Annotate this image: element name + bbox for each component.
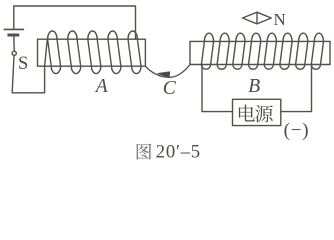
battery long plate (+) (4, 28, 24, 30)
compass needle lozenge with center line (243, 12, 272, 24)
svg-text:C: C (163, 78, 177, 99)
coil B core rectangle (190, 41, 330, 64)
coil B loop 7 (296, 33, 308, 69)
coil A loop 2 (68, 31, 81, 74)
battery short thick plate (-) (8, 34, 20, 37)
coil B loop 5 (264, 33, 276, 69)
wire coil B left end down to power supply (202, 65, 233, 112)
svg-text:(−): (−) (284, 120, 310, 141)
arrowhead on wire C pointing left (158, 72, 170, 78)
coil A loop 4 (108, 31, 121, 74)
svg-text:S: S (18, 54, 28, 74)
svg-text:B: B (248, 76, 260, 97)
svg-text:A: A (94, 76, 108, 97)
power supply box (233, 99, 281, 125)
switch contact circle (12, 51, 16, 55)
coil A core rectangle (38, 39, 146, 66)
coil A winding start slant wire (45, 39, 48, 66)
caption 图 (figure) (137, 144, 152, 160)
wire bottom from switch to coil A start (12, 66, 44, 93)
coil B loop 8 (311, 33, 323, 69)
coil A loop 3 (88, 31, 101, 74)
coil B loop 1 (201, 33, 213, 69)
label 源 (power supply text) (255, 105, 273, 122)
wire battery to switch (13, 37, 15, 52)
wire top loop from battery positive to coil A right top (14, 6, 136, 39)
svg-text:N: N (274, 10, 286, 29)
coil B loop 3 (233, 33, 245, 69)
label 电 (power supply text) (239, 105, 255, 122)
coil A loop 5 (128, 31, 141, 74)
coil B loop 2 (217, 33, 229, 69)
coil B loop 4 (249, 33, 261, 69)
switch blade wire down to bottom corner (12, 56, 14, 93)
coil B loop 6 (280, 33, 292, 69)
svg-text:20′–5: 20′–5 (156, 142, 201, 163)
sagging wire C between coil A and coil B (145, 65, 190, 78)
coil A loop 1 (48, 31, 61, 74)
wire coil B right end down to power supply (281, 65, 312, 112)
